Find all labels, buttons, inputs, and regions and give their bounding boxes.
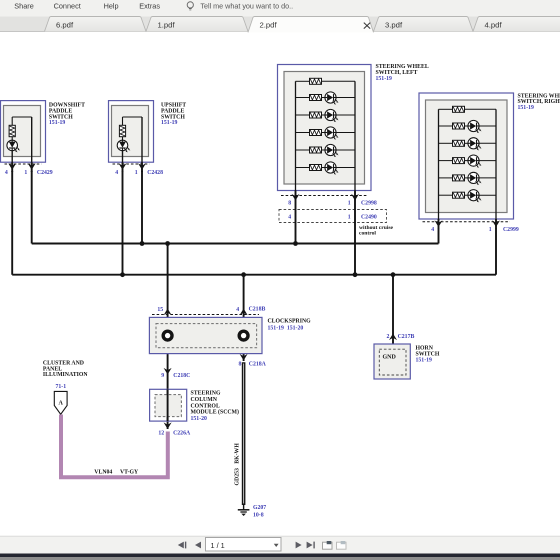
svg-text:151-19: 151-19 [161, 120, 178, 126]
svg-text:VLN04: VLN04 [94, 470, 112, 476]
svg-text:4: 4 [431, 227, 434, 233]
svg-text:STEERING: STEERING [191, 391, 221, 397]
svg-text:151-19 151-20: 151-19 151-20 [268, 325, 304, 331]
svg-text:C2428: C2428 [147, 170, 163, 176]
svg-text:1.pdf: 1.pdf [158, 21, 176, 30]
svg-text:151-19: 151-19 [49, 120, 66, 126]
svg-text:9: 9 [161, 373, 164, 379]
svg-text:C2999: C2999 [503, 227, 519, 233]
svg-text:1: 1 [24, 170, 27, 176]
svg-text:CONTROL: CONTROL [191, 403, 220, 409]
svg-text:151-19: 151-19 [416, 357, 433, 363]
svg-text:8: 8 [238, 361, 241, 367]
svg-text:C218A: C218A [249, 361, 267, 367]
svg-text:ILLUMINATION: ILLUMINATION [43, 372, 88, 378]
svg-text:GD253 BK-WH: GD253 BK-WH [235, 443, 241, 486]
svg-text:4: 4 [115, 170, 118, 176]
svg-text:C218B: C218B [249, 307, 266, 313]
svg-text:151-20: 151-20 [191, 416, 208, 422]
svg-text:G207: G207 [253, 505, 266, 511]
svg-text:4: 4 [5, 170, 8, 176]
svg-text:Extras: Extras [139, 2, 160, 11]
svg-text:Help: Help [104, 2, 119, 11]
svg-text:151-19: 151-19 [518, 105, 535, 111]
svg-text:15: 15 [157, 307, 163, 313]
svg-text:C218C: C218C [173, 373, 190, 379]
svg-text:6.pdf: 6.pdf [56, 21, 74, 30]
svg-text:71-1: 71-1 [56, 384, 67, 390]
svg-text:VT-GY: VT-GY [120, 470, 139, 476]
svg-text:MODULE (SCCM): MODULE (SCCM) [191, 409, 240, 416]
svg-text:C217B: C217B [398, 334, 415, 340]
svg-text:C2490: C2490 [361, 214, 377, 220]
svg-text:3.pdf: 3.pdf [385, 21, 403, 30]
svg-text:C2429: C2429 [37, 170, 53, 176]
svg-text:2.pdf: 2.pdf [260, 21, 278, 30]
svg-text:2: 2 [386, 334, 389, 340]
svg-text:C226A: C226A [173, 430, 191, 436]
svg-text:Connect: Connect [54, 2, 81, 11]
svg-text:1 / 1: 1 / 1 [211, 541, 225, 550]
svg-text:Tell me what you want to do..: Tell me what you want to do.. [200, 2, 293, 11]
svg-text:CLOCKSPRING: CLOCKSPRING [268, 318, 312, 324]
svg-text:C2998: C2998 [361, 200, 377, 206]
svg-text:1: 1 [135, 170, 138, 176]
svg-text:Share: Share [14, 2, 33, 11]
svg-text:10-8: 10-8 [253, 512, 264, 518]
svg-text:COLUMN: COLUMN [191, 397, 218, 403]
svg-text:1: 1 [489, 227, 492, 233]
svg-text:8: 8 [288, 200, 291, 206]
svg-text:151-19: 151-19 [376, 76, 393, 82]
svg-text:4: 4 [288, 214, 291, 220]
svg-text:1: 1 [348, 214, 351, 220]
svg-text:1: 1 [348, 200, 351, 206]
svg-text:control: control [359, 230, 376, 236]
svg-text:4: 4 [236, 307, 239, 313]
svg-text:A: A [59, 401, 64, 407]
svg-text:4.pdf: 4.pdf [485, 21, 503, 30]
svg-text:12: 12 [158, 430, 164, 436]
svg-text:GND: GND [383, 355, 397, 361]
